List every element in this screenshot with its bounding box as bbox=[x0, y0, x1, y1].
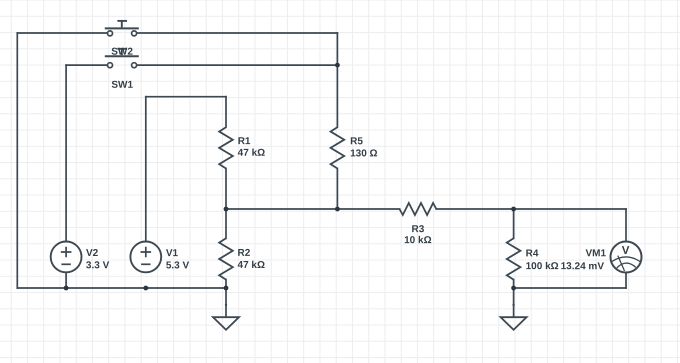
wire: mid bus right segment bbox=[436, 208, 626, 210]
wire: ground stub below R4 bbox=[513, 288, 515, 317]
svg-text:47 kΩ: 47 kΩ bbox=[238, 148, 265, 159]
junction node: SW1 right / R5 rail bbox=[335, 63, 340, 68]
svg-text:5.3 V: 5.3 V bbox=[166, 260, 190, 271]
wire: top wire left of SW2 bbox=[17, 32, 107, 34]
voltmeter VM1 bbox=[611, 242, 642, 273]
svg-text:130 Ω: 130 Ω bbox=[350, 148, 377, 159]
resistor R4 bbox=[507, 238, 521, 279]
wire: top wire right of SW2 to top-right corner bbox=[137, 32, 337, 34]
wire: R2 bottom stub bbox=[225, 280, 227, 288]
svg-text:47 kΩ: 47 kΩ bbox=[238, 260, 265, 271]
wire: voltmeter bottom to bottom-right bus bbox=[625, 272, 627, 288]
junction node: R2 bottom bus bbox=[224, 286, 229, 291]
svg-text:VM1: VM1 bbox=[585, 248, 606, 259]
ground (under R4) bbox=[501, 304, 527, 330]
resistor R3 (horizontal) bbox=[400, 203, 437, 215]
svg-text:100 kΩ: 100 kΩ bbox=[526, 261, 559, 272]
svg-text:R1: R1 bbox=[238, 136, 251, 147]
svg-text:SW1: SW1 bbox=[111, 80, 133, 91]
voltage source V2 bbox=[51, 242, 82, 273]
wire: right rail down to voltmeter top bbox=[625, 209, 627, 242]
wire: R5 bottom to mid bus bbox=[336, 169, 338, 210]
junction node: R5 bottom mid bus bbox=[335, 207, 340, 212]
pushbutton SW1 (open) bbox=[105, 49, 139, 68]
resistor R2 bbox=[219, 238, 233, 279]
svg-text:V2: V2 bbox=[86, 248, 99, 259]
voltage source V1 bbox=[130, 242, 161, 273]
pushbutton SW2 (closed) bbox=[105, 21, 139, 36]
svg-text:SW2: SW2 bbox=[111, 47, 133, 58]
svg-text:10 kΩ: 10 kΩ bbox=[404, 235, 431, 246]
svg-text:13.24 mV: 13.24 mV bbox=[561, 261, 605, 272]
junction node: V1 minus bottom bus bbox=[143, 286, 148, 291]
junction node: R1/R2 mid bus bbox=[224, 207, 229, 212]
wire: bottom-right bus bbox=[514, 287, 626, 289]
svg-text:R3: R3 bbox=[411, 224, 424, 235]
wire: R4 top stub bbox=[513, 209, 515, 238]
wire: V2 top rail vertical bbox=[65, 65, 67, 241]
svg-text:V: V bbox=[622, 245, 630, 257]
resistor R1 bbox=[219, 127, 233, 168]
wire: left rail vertical bbox=[16, 33, 18, 288]
wire: mid bus left segment bbox=[226, 208, 400, 210]
svg-text:V1: V1 bbox=[166, 248, 179, 259]
ground (under R2) bbox=[213, 304, 239, 330]
wire: R4 bottom stub bbox=[513, 280, 515, 288]
wire: down from jog to R1 top bbox=[225, 97, 227, 128]
svg-text:3.3 V: 3.3 V bbox=[86, 260, 110, 271]
wire: R1 bottom to mid bus bbox=[225, 169, 227, 210]
wire: V1 top vertical bbox=[145, 97, 147, 242]
junction node: R4 bottom bus bbox=[511, 286, 516, 291]
wire: bottom-left bus bbox=[17, 287, 226, 289]
junction node: V2 minus bottom bus bbox=[64, 286, 69, 291]
wire: ground stub below R2 bbox=[225, 288, 227, 317]
wire: V2 bottom stub bbox=[65, 272, 67, 288]
wire: R2 top stub bbox=[225, 209, 227, 238]
svg-text:R5: R5 bbox=[350, 136, 363, 147]
wire: SW1 left stub bbox=[66, 64, 107, 66]
junction node: R4 top mid bus bbox=[511, 207, 516, 212]
svg-text:R4: R4 bbox=[526, 248, 539, 259]
wire: SW1 right wire to junction on R5 rail bbox=[137, 64, 337, 66]
svg-text:R2: R2 bbox=[238, 248, 251, 259]
wire: jog from V1 to R1 horizontal bbox=[146, 96, 226, 98]
wire: vertical from top corner down to R5 top bbox=[336, 33, 338, 127]
resistor R5 bbox=[331, 127, 345, 168]
